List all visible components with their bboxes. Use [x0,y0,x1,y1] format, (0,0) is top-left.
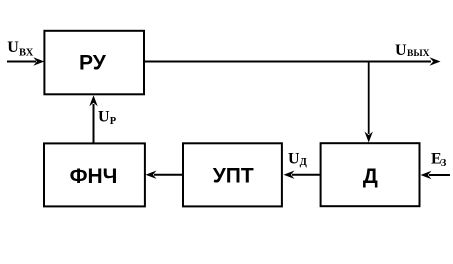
wire Ез into Д [421,171,451,179]
svg-text:ВХ: ВХ [19,48,34,59]
block УПТ [183,143,282,206]
label Uвых [395,42,430,59]
block РУ [44,31,144,95]
wire branch down to Д [365,62,373,143]
svg-text:U: U [7,39,19,56]
svg-text:U: U [395,42,407,59]
svg-text:Д: Д [300,157,308,168]
svg-text:Д: Д [363,165,378,188]
svg-text:U: U [98,108,110,125]
label Ез [431,150,447,169]
svg-text:УПТ: УПТ [213,165,254,188]
label Uд [288,151,308,168]
block ФНЧ [44,143,145,206]
wire Д to УПТ [284,171,321,179]
label Uвх [7,39,34,59]
svg-text:РУ: РУ [79,51,107,74]
svg-text:З: З [441,158,447,169]
block Д [321,143,420,206]
svg-text:Р: Р [110,116,117,127]
svg-text:U: U [288,151,300,168]
wire УПТ to ФНЧ [146,171,184,179]
svg-text:ВЫХ: ВЫХ [407,49,430,59]
wire input Uвх into РУ [7,57,44,65]
wire output from РУ [145,57,441,65]
wire ФНЧ up to РУ [89,95,97,143]
label Uр [98,108,117,127]
svg-text:ФНЧ: ФНЧ [70,165,118,188]
